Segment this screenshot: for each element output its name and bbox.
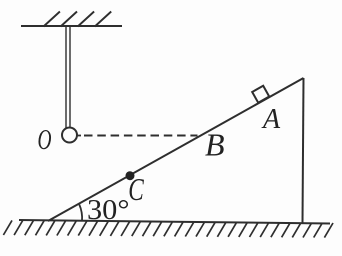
svg-text:O: O bbox=[38, 125, 52, 156]
ceiling hatch 3 bbox=[78, 12, 94, 27]
ball nub bbox=[77, 135, 81, 137]
ceiling hatch 4 bbox=[95, 12, 111, 27]
svg-text:B: B bbox=[205, 127, 225, 163]
svg-text:A: A bbox=[261, 104, 281, 135]
angle arc bbox=[79, 205, 82, 222]
ceiling hatch 2 bbox=[61, 12, 77, 27]
dashed line O to B bbox=[84, 135, 198, 137]
pendulum rod right line bbox=[69, 27, 71, 128]
block on incline bbox=[252, 86, 269, 103]
ground line bbox=[19, 220, 330, 224]
pendulum rod left line bbox=[65, 27, 67, 128]
incline vertical side bbox=[303, 78, 304, 223]
point C dot bbox=[126, 171, 135, 180]
ceiling hatch 1 bbox=[44, 12, 60, 27]
ground hatching bbox=[3, 220, 333, 237]
ceiling line bbox=[21, 25, 122, 27]
svg-text:30°: 30° bbox=[87, 194, 130, 226]
pendulum ball bbox=[62, 128, 77, 143]
incline hypotenuse bbox=[48, 78, 304, 221]
svg-text:C: C bbox=[128, 171, 144, 207]
